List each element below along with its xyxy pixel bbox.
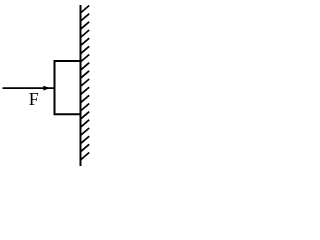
background [0,0,106,170]
wall line [80,5,82,166]
force arrow shaft [3,87,55,89]
svg-text:F: F [29,89,39,109]
wall hatching [81,6,89,160]
block against wall [55,61,81,114]
force arrowhead [43,86,50,91]
